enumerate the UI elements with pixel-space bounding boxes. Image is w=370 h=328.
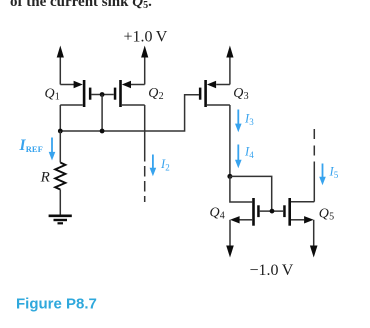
- label Q5: [319, 207, 334, 223]
- transistor Q3 (PMOS): [199, 80, 230, 107]
- node gate dot: [100, 92, 105, 97]
- label Q2: [148, 86, 163, 102]
- wire Q5 drain dashed continuation: [313, 129, 315, 158]
- ground: [49, 216, 72, 224]
- transistor Q4 (NMOS): [230, 198, 260, 226]
- wire gate lead Q1-Q2: [91, 94, 113, 96]
- current arrow I2: [150, 155, 157, 177]
- supply arrow Q4 source to -1.0 V: [226, 220, 234, 258]
- resistor R: [55, 163, 65, 190]
- wire junction to Q4 drain: [230, 176, 252, 202]
- current arrow I5: [319, 164, 326, 186]
- cropped caption text "of the current sink Q5.": [10, 0, 152, 11]
- wire Q1 drain to bus: [59, 105, 61, 131]
- supply arrow (Q2 source, to +1.0 V rail): [141, 46, 148, 85]
- label I4: [244, 145, 254, 161]
- label Q3: [233, 86, 248, 102]
- svg-text:1: 1: [55, 91, 60, 102]
- node bus dot mid: [100, 129, 105, 134]
- current arrow IREF: [49, 138, 56, 161]
- label I2: [160, 157, 170, 173]
- wire bus to Q3 gate: [60, 95, 199, 131]
- label -1.0 V: [250, 262, 294, 279]
- svg-text:of the current sink Q5.: of the current sink Q5.: [10, 0, 152, 11]
- wire Q2 drain dashed continuation: [144, 166, 146, 202]
- wire Q3 drain down: [229, 105, 231, 176]
- wire junction to Q4-Q5 gates: [230, 176, 272, 211]
- supply arrow Q5 source to -1.0 V: [310, 220, 318, 258]
- svg-text:5: 5: [334, 170, 339, 180]
- node bus dot left: [58, 129, 63, 134]
- svg-text:Q: Q: [45, 86, 55, 101]
- transistor Q2 (PMOS): [114, 80, 145, 107]
- current arrow I3: [235, 110, 242, 133]
- label I5: [329, 165, 339, 181]
- svg-text:−1.0 V: −1.0 V: [250, 262, 294, 279]
- wire Q2 drain down (solid): [144, 105, 146, 162]
- node dot Q3 drain junction: [227, 174, 232, 179]
- supply arrow (Q3 source, to +1.0 V rail): [226, 46, 233, 85]
- label Q4: [210, 205, 225, 221]
- svg-text:REF: REF: [26, 144, 43, 154]
- svg-text:Figure P8.7: Figure P8.7: [16, 296, 97, 313]
- wire resistor to ground: [59, 190, 61, 216]
- wire gate dropdown to bus: [101, 95, 103, 132]
- svg-text:4: 4: [220, 210, 225, 221]
- svg-text:+1.0 V: +1.0 V: [124, 29, 168, 46]
- label IREF: [19, 137, 43, 154]
- label I3: [244, 112, 254, 128]
- figure caption Figure P8.7: [16, 296, 97, 313]
- current arrow I4: [235, 145, 242, 169]
- label +1.0 V: [124, 29, 168, 46]
- svg-text:2: 2: [159, 91, 164, 102]
- label R: [40, 169, 50, 185]
- transistor Q1 (PMOS): [60, 80, 91, 107]
- svg-text:Q: Q: [233, 86, 243, 101]
- svg-text:3: 3: [249, 117, 254, 127]
- transistor Q5 (NMOS): [283, 198, 314, 226]
- svg-text:3: 3: [244, 91, 249, 102]
- svg-text:4: 4: [249, 150, 254, 160]
- svg-text:R: R: [40, 169, 50, 185]
- wire bus to resistor: [59, 131, 61, 163]
- node dot Q4-Q5 gates: [270, 209, 275, 214]
- wire Q5 drain up (solid): [313, 162, 315, 202]
- wire Q4 gate lead: [260, 210, 283, 212]
- svg-text:Q: Q: [319, 207, 329, 222]
- label Q1: [45, 86, 60, 102]
- svg-text:Q: Q: [210, 205, 220, 220]
- svg-text:2: 2: [165, 163, 170, 173]
- svg-text:5: 5: [329, 212, 334, 223]
- supply arrow (Q1 source, to +1.0 V rail): [57, 46, 64, 85]
- svg-text:Q: Q: [148, 86, 158, 101]
